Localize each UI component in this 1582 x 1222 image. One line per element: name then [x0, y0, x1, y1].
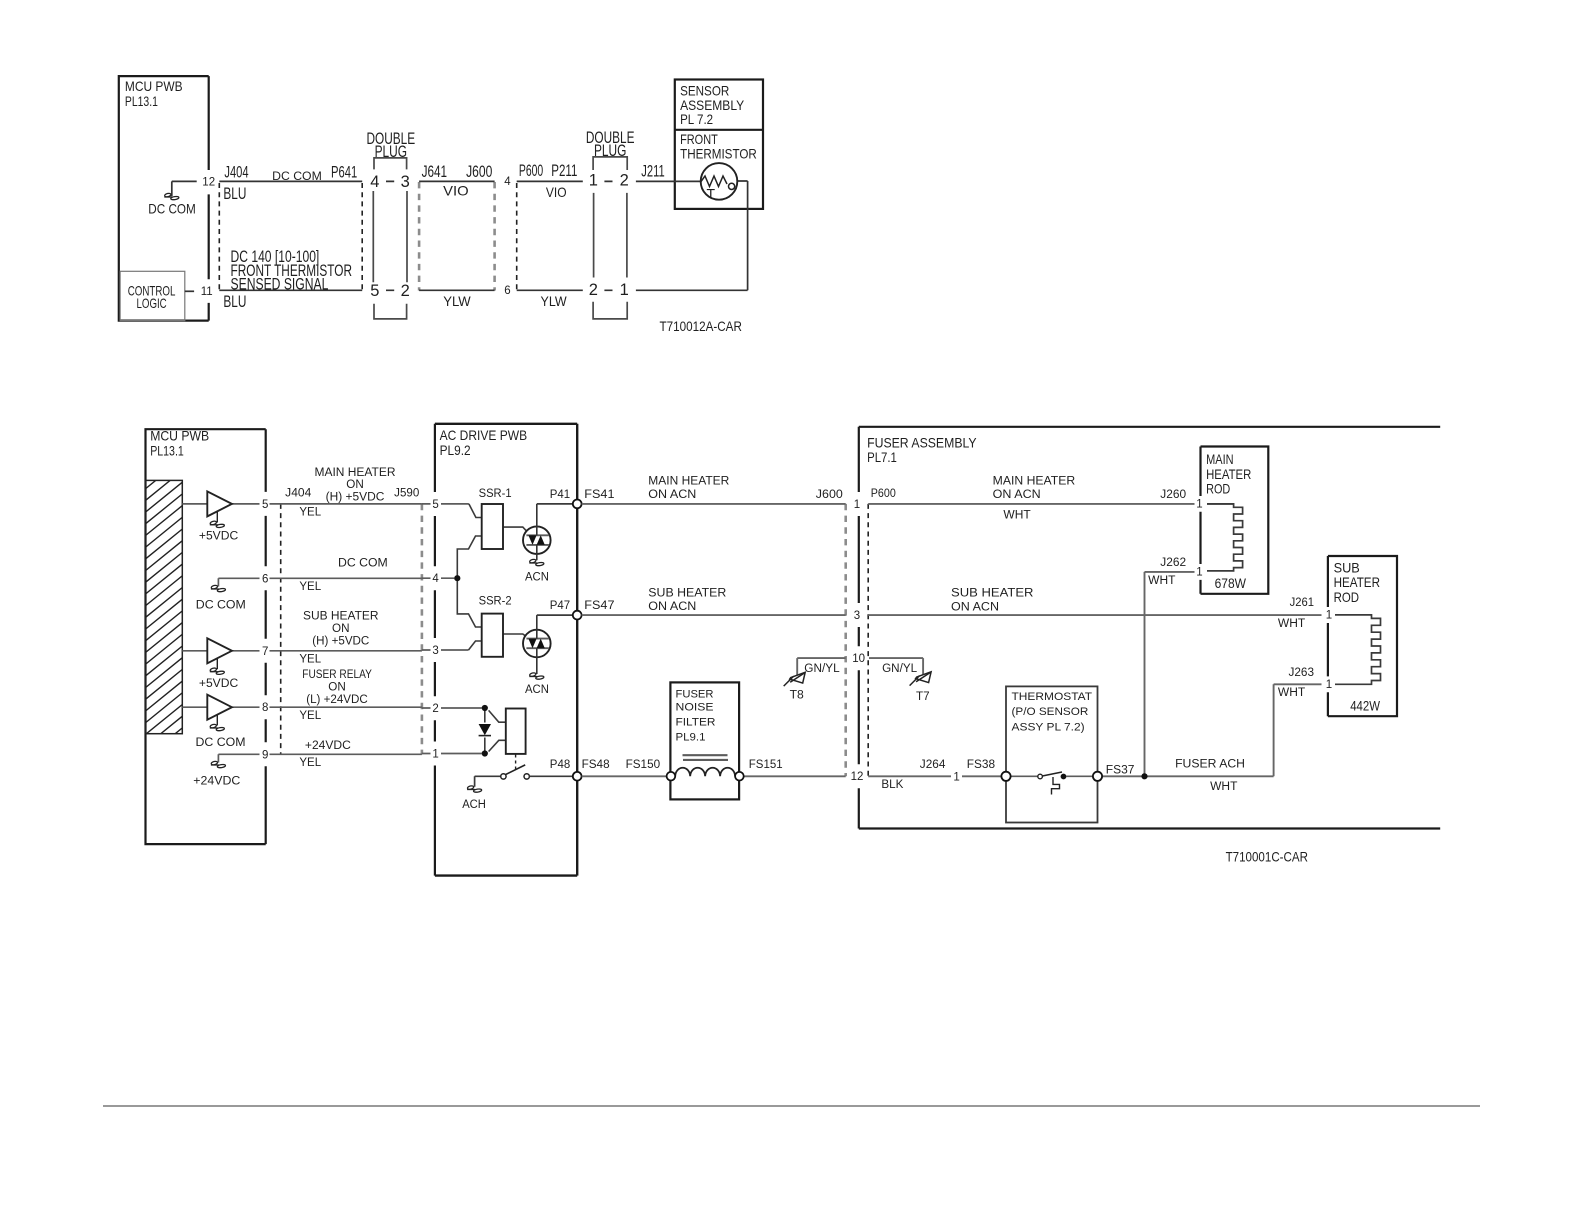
svg-text:PL9.2: PL9.2: [440, 442, 471, 458]
svg-text:J404: J404: [224, 164, 248, 182]
svg-text:NOISE: NOISE: [676, 702, 714, 714]
svg-text:J590: J590: [394, 488, 419, 500]
svg-text:MAIN HEATER: MAIN HEATER: [993, 475, 1075, 487]
svg-text:5: 5: [262, 499, 268, 511]
svg-text:WHT: WHT: [1278, 687, 1305, 699]
svg-text:P47: P47: [550, 600, 570, 612]
svg-text:GN/YL: GN/YL: [882, 663, 918, 675]
svg-text:(L) +24VDC: (L) +24VDC: [306, 694, 368, 706]
svg-text:SUB HEATER: SUB HEATER: [303, 611, 379, 623]
svg-text:10: 10: [852, 653, 865, 665]
svg-text:THERMISTOR: THERMISTOR: [680, 146, 757, 162]
svg-text:YEL: YEL: [299, 581, 321, 593]
svg-text:ON: ON: [332, 623, 350, 635]
svg-text:1: 1: [620, 281, 629, 299]
svg-text:SUB: SUB: [1334, 559, 1360, 575]
svg-text:ON: ON: [346, 479, 364, 491]
svg-text:PLUG: PLUG: [594, 142, 626, 160]
svg-text:J404: J404: [285, 488, 312, 500]
svg-text:5: 5: [370, 282, 379, 300]
svg-text:SENSED SIGNAL: SENSED SIGNAL: [231, 276, 329, 294]
svg-text:ACN: ACN: [525, 684, 549, 696]
svg-text:J263: J263: [1289, 667, 1315, 679]
svg-text:3: 3: [401, 173, 410, 191]
svg-text:FUSER: FUSER: [676, 688, 714, 700]
svg-text:3: 3: [854, 610, 860, 622]
svg-text:T7: T7: [916, 691, 930, 703]
svg-text:DC COM: DC COM: [196, 737, 246, 749]
svg-text:12: 12: [202, 177, 215, 189]
svg-text:YEL: YEL: [299, 710, 321, 722]
svg-text:4: 4: [504, 176, 511, 188]
svg-text:11: 11: [201, 286, 213, 298]
svg-text:ON ACN: ON ACN: [648, 489, 696, 501]
svg-text:PLUG: PLUG: [375, 143, 407, 161]
svg-text:+24VDC: +24VDC: [305, 740, 351, 752]
svg-text:678W: 678W: [1215, 575, 1247, 591]
svg-text:(H) +5VDC: (H) +5VDC: [326, 491, 385, 503]
svg-text:4: 4: [370, 173, 379, 191]
svg-text:FS38: FS38: [967, 759, 995, 771]
svg-text:DC COM: DC COM: [272, 171, 322, 183]
svg-text:YEL: YEL: [299, 507, 321, 519]
svg-text:+24VDC: +24VDC: [193, 776, 240, 788]
svg-text:J262: J262: [1160, 557, 1186, 569]
svg-text:P211: P211: [551, 162, 577, 180]
svg-text:SSR-1: SSR-1: [479, 488, 512, 500]
svg-text:PL9.1: PL9.1: [676, 731, 706, 743]
svg-text:442W: 442W: [1350, 697, 1380, 713]
svg-text:+5VDC: +5VDC: [199, 531, 238, 543]
svg-text:FS151: FS151: [749, 759, 783, 771]
svg-text:1: 1: [953, 771, 959, 783]
svg-text:9: 9: [262, 749, 268, 761]
svg-text:2: 2: [401, 282, 410, 300]
svg-text:1: 1: [1326, 679, 1332, 691]
svg-text:MAIN HEATER: MAIN HEATER: [315, 467, 396, 479]
svg-text:VIO: VIO: [443, 182, 469, 198]
svg-text:WHT: WHT: [1003, 510, 1030, 522]
svg-text:1: 1: [1196, 567, 1202, 579]
svg-text:6: 6: [504, 285, 510, 297]
svg-text:J600: J600: [816, 489, 843, 501]
svg-text:BLU: BLU: [223, 185, 246, 203]
svg-text:T8: T8: [790, 689, 804, 701]
svg-text:2: 2: [432, 703, 438, 715]
svg-text:ASSY PL 7.2): ASSY PL 7.2): [1012, 721, 1085, 733]
svg-text:ROD: ROD: [1334, 589, 1360, 605]
svg-text:J641: J641: [422, 163, 448, 181]
svg-text:YEL: YEL: [299, 654, 321, 666]
svg-text:YLW: YLW: [443, 293, 471, 309]
svg-text:SUB HEATER: SUB HEATER: [951, 588, 1034, 600]
svg-text:HEATER: HEATER: [1206, 466, 1251, 482]
svg-text:FS47: FS47: [584, 600, 614, 612]
svg-text:8: 8: [262, 702, 268, 714]
svg-text:DC COM: DC COM: [148, 200, 196, 216]
svg-text:MCU PWB: MCU PWB: [150, 428, 209, 444]
svg-text:1: 1: [1326, 610, 1332, 622]
svg-text:P48: P48: [550, 759, 570, 771]
svg-text:T710001C-CAR: T710001C-CAR: [1226, 849, 1308, 865]
svg-text:SSR-2: SSR-2: [479, 596, 512, 608]
svg-text:FS37: FS37: [1106, 765, 1135, 777]
svg-text:T: T: [707, 186, 716, 202]
svg-text:BLK: BLK: [881, 779, 903, 791]
svg-text:(H) +5VDC: (H) +5VDC: [312, 636, 369, 648]
svg-text:12: 12: [851, 771, 864, 783]
svg-text:P600: P600: [519, 162, 543, 180]
svg-text:LOGIC: LOGIC: [137, 295, 167, 311]
svg-text:ACH: ACH: [462, 799, 486, 811]
svg-text:1: 1: [1196, 499, 1202, 511]
svg-text:PL13.1: PL13.1: [150, 443, 184, 459]
svg-text:ROD: ROD: [1206, 481, 1230, 497]
svg-text:FS41: FS41: [584, 489, 614, 501]
svg-text:P600: P600: [871, 488, 896, 500]
svg-text:FS48: FS48: [582, 759, 610, 771]
svg-text:BLU: BLU: [223, 293, 246, 311]
svg-text:J260: J260: [1160, 489, 1186, 501]
svg-text:T710012A-CAR: T710012A-CAR: [660, 318, 742, 334]
svg-text:P41: P41: [550, 489, 570, 501]
svg-text:6: 6: [262, 573, 268, 585]
svg-text:MAIN HEATER: MAIN HEATER: [648, 475, 729, 487]
svg-text:YEL: YEL: [299, 757, 321, 769]
svg-text:1: 1: [854, 499, 860, 511]
svg-text:WHT: WHT: [1148, 575, 1175, 587]
svg-text:J600: J600: [466, 163, 492, 181]
svg-text:2: 2: [620, 172, 629, 190]
svg-text:+5VDC: +5VDC: [199, 678, 238, 690]
svg-text:P641: P641: [331, 164, 357, 182]
svg-text:ON ACN: ON ACN: [951, 601, 999, 613]
svg-text:J264: J264: [920, 759, 946, 771]
svg-text:YLW: YLW: [541, 293, 568, 309]
svg-text:WHT: WHT: [1210, 781, 1237, 793]
svg-text:ON: ON: [328, 681, 346, 693]
svg-text:FUSER ACH: FUSER ACH: [1175, 758, 1245, 770]
svg-text:3: 3: [432, 645, 438, 657]
svg-text:2: 2: [589, 281, 598, 299]
svg-text:FUSER ASSEMBLY: FUSER ASSEMBLY: [867, 434, 977, 450]
svg-text:AC DRIVE PWB: AC DRIVE PWB: [440, 427, 527, 443]
svg-text:DC COM: DC COM: [196, 599, 246, 611]
svg-text:THERMOSTAT: THERMOSTAT: [1012, 691, 1093, 703]
svg-text:ON ACN: ON ACN: [993, 489, 1041, 501]
svg-text:ON ACN: ON ACN: [648, 601, 696, 613]
svg-text:PL13.1: PL13.1: [125, 93, 158, 109]
svg-text:PL7.1: PL7.1: [867, 449, 897, 465]
svg-text:1: 1: [432, 749, 438, 761]
svg-text:1: 1: [589, 172, 598, 190]
svg-text:J261: J261: [1290, 597, 1314, 609]
svg-text:VIO: VIO: [546, 184, 567, 200]
svg-text:J211: J211: [641, 163, 664, 181]
svg-text:MAIN: MAIN: [1206, 451, 1234, 467]
svg-text:7: 7: [262, 646, 268, 658]
svg-text:FUSER RELAY: FUSER RELAY: [302, 669, 372, 681]
svg-text:5: 5: [432, 499, 438, 511]
svg-text:PL 7.2: PL 7.2: [680, 111, 713, 127]
svg-text:GN/YL: GN/YL: [804, 663, 840, 675]
svg-text:SUB HEATER: SUB HEATER: [648, 587, 726, 599]
svg-text:DC COM: DC COM: [338, 558, 388, 570]
svg-text:4: 4: [432, 573, 439, 585]
svg-text:FS150: FS150: [626, 759, 661, 771]
svg-text:FILTER: FILTER: [676, 716, 716, 728]
svg-text:WHT: WHT: [1278, 618, 1305, 630]
svg-text:ACN: ACN: [525, 572, 549, 584]
svg-text:(P/O SENSOR: (P/O SENSOR: [1012, 706, 1089, 718]
svg-text:HEATER: HEATER: [1334, 574, 1380, 590]
svg-text:MCU PWB: MCU PWB: [125, 78, 183, 94]
